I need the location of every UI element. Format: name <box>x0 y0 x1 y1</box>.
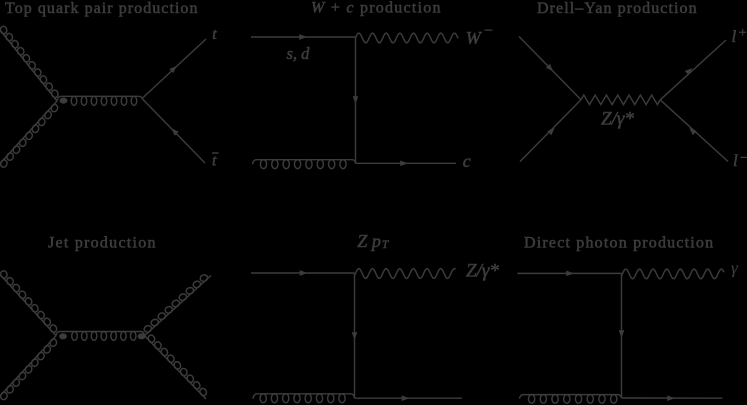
svg-text:Z/γ*: Z/γ* <box>466 261 499 282</box>
gluon incoming bottom panel6 <box>520 395 622 399</box>
svg-text:Top quark pair production: Top quark pair production <box>5 0 199 17</box>
label tbar overbar <box>212 152 219 154</box>
fermion incoming (q) panel5 <box>251 272 355 274</box>
photon wavy line panel6 <box>622 269 725 279</box>
fermion incoming lower-left (qbar) <box>520 100 581 162</box>
fermion outgoing panel6 <box>622 397 723 399</box>
W boson wavy line <box>356 33 459 43</box>
fermion propagator vertical panel5 <box>354 273 356 398</box>
arrow on s,d line <box>299 34 307 40</box>
arrow down on vertical panel5 <box>352 332 358 340</box>
arrow on l- line (toward vertex) <box>689 128 697 135</box>
svg-text:t: t <box>212 153 217 170</box>
vertex blob right <box>138 333 146 339</box>
fermion line tbar (outgoing anti-top) <box>142 99 205 164</box>
svg-text:c: c <box>463 151 471 171</box>
gluon incoming lower-left (g2) <box>0 101 57 167</box>
svg-text:Jet production: Jet production <box>48 234 157 251</box>
arrow on q line (toward vertex) <box>546 64 553 71</box>
gluon propagator horizontal (g3) <box>57 96 142 101</box>
gluon incoming upper-left (jet g1) <box>0 271 56 336</box>
arrow on vertical propagator (down) <box>353 96 359 104</box>
fermion outgoing l+ (upper-right) <box>660 40 726 100</box>
Z boson wavy line panel5 <box>355 269 456 279</box>
arrow on qbar line <box>547 128 554 135</box>
arrow on outgoing panel6 <box>667 395 675 401</box>
svg-text:Drell–Yan production: Drell–Yan production <box>537 0 698 17</box>
fermion line t (outgoing top quark) <box>142 39 206 99</box>
fermion propagator vertical <box>355 37 357 163</box>
arrow on t line <box>169 66 177 73</box>
gluon outgoing lower-right (jet g5) <box>145 336 207 399</box>
gluon incoming bottom panel5 <box>253 394 355 399</box>
fermion incoming (q) panel6 <box>518 272 622 274</box>
fermion incoming upper-left (q) <box>519 37 581 100</box>
Z/gamma* zigzag propagator <box>581 95 660 105</box>
svg-text:s, d: s, d <box>287 44 311 63</box>
fermion outgoing panel5 <box>355 397 463 399</box>
arrow on tbar line (toward vertex) <box>171 128 178 135</box>
arrow on outgoing panel5 <box>402 395 410 401</box>
gluon propagator horizontal (jet g3) <box>56 332 145 336</box>
arrow down on vertical panel6 <box>619 330 625 338</box>
svg-text:Z/γ*: Z/γ* <box>601 108 634 129</box>
arrow on incoming q panel6 <box>566 271 574 277</box>
fermion propagator vertical panel6 <box>621 273 623 398</box>
gluon incoming bottom (g) <box>253 160 356 165</box>
gluon incoming upper-left (g1) <box>0 26 57 101</box>
arrow on l+ line (outward) <box>685 68 693 75</box>
svg-text:W + c production: W + c production <box>311 0 442 17</box>
vertex blob left <box>59 333 67 339</box>
fermion incoming s,d <box>251 36 356 38</box>
arrow on c line <box>400 160 408 166</box>
svg-text:t: t <box>212 26 217 43</box>
svg-text:Direct photon production: Direct photon production <box>524 234 714 251</box>
fermion outgoing l- (lower-right) <box>660 100 728 162</box>
fermion outgoing c <box>356 162 457 164</box>
vertex blob at g3 start <box>60 98 68 104</box>
arrow on incoming q panel5 <box>300 270 308 276</box>
gluon outgoing upper-right (jet g4) <box>145 276 212 336</box>
gluon incoming lower-left (jet g2) <box>0 336 56 400</box>
